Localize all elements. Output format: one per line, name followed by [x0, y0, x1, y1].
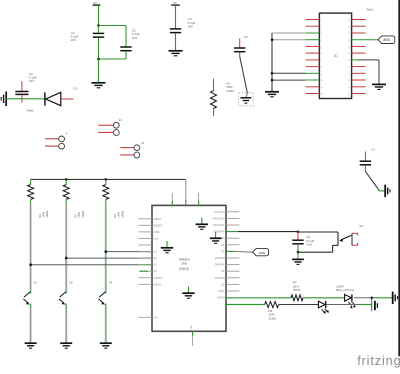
pin 17: [348, 67, 366, 69]
pin 7: [306, 60, 323, 62]
power 5V (C1/C2 net): [93, 1, 101, 5]
node junction: [29, 263, 32, 266]
wire: [30, 292, 32, 343]
svg-text:TX/D1: TX/D1: [218, 290, 225, 293]
net label ANS (Arduino): [253, 249, 269, 256]
pin 4: [306, 40, 323, 42]
pin D7 (right): [221, 250, 225, 253]
svg-text:fritzing: fritzing: [357, 354, 400, 368]
pin 1: [306, 20, 323, 22]
wire: [105, 292, 107, 343]
wire: [6, 98, 44, 100]
label Part2: [27, 108, 35, 112]
Arduino Uno (Rev3) body: [152, 205, 226, 331]
pin 14: [348, 87, 366, 89]
svg-text:16V: 16V: [188, 24, 194, 28]
svg-text:S3: S3: [109, 281, 113, 285]
wire: [303, 297, 344, 299]
svg-text:C4: C4: [244, 35, 248, 39]
pin 24: [348, 20, 366, 22]
ground (sideways right): [385, 185, 390, 197]
diode D1: [45, 87, 78, 106]
pin N/C (left): [139, 316, 158, 319]
fritzing watermark: [357, 354, 400, 368]
pin MISO/D12 (right): [213, 217, 239, 220]
pin A1 (left): [139, 257, 158, 260]
wire: [30, 205, 32, 292]
wire: [272, 79, 306, 81]
ground (below C1): [92, 83, 106, 88]
wire: [65, 205, 67, 292]
capacitor C2: [120, 29, 140, 59]
svg-text:16V: 16V: [29, 79, 35, 83]
svg-text:A5/SCL: A5/SCL: [154, 283, 163, 286]
pin A4/SDA (left): [139, 277, 163, 280]
pin GND (bottom): [191, 325, 193, 346]
svg-text:220Ω: 220Ω: [293, 288, 301, 292]
wire (R4 column to A0): [106, 251, 152, 253]
wire: [272, 32, 306, 34]
pin ioref (left): [139, 237, 159, 240]
svg-text:10kΩ: 10kΩ: [45, 210, 49, 218]
pin 6: [306, 53, 323, 55]
pin D4 (right): [221, 270, 239, 273]
wire (R3 column to A1): [66, 257, 152, 259]
pin 18: [348, 60, 379, 62]
sheet border (right edge): [398, 0, 400, 356]
pin 5V (top): [186, 204, 188, 207]
wire: [226, 297, 291, 299]
svg-text:16V: 16V: [306, 242, 312, 246]
node junction: [65, 178, 68, 181]
wire: [371, 298, 373, 312]
power 5V (C3 net): [171, 1, 180, 5]
wire: [175, 34, 177, 51]
ground (inside Arduino, right): [210, 232, 222, 244]
svg-text:5V: 5V: [93, 1, 97, 5]
node junction: [297, 231, 300, 234]
pin RESET2 (left): [139, 224, 164, 227]
svg-text:ANS: ANS: [259, 251, 265, 255]
node junction: [105, 178, 108, 181]
node junction: [371, 297, 373, 299]
pin A0 (left): [139, 251, 158, 254]
svg-text:J1: J1: [119, 118, 123, 122]
svg-text:GND: GND: [191, 325, 193, 330]
pin 9: [306, 73, 323, 75]
pin 13: [348, 94, 366, 96]
ground (inside Arduino, left): [161, 241, 173, 253]
svg-text:RESET: RESET: [154, 218, 163, 221]
wire (S4 loop): [298, 232, 338, 252]
capacitor C1: [71, 26, 105, 60]
op-amp U1 / IC Part1 body: [319, 13, 351, 98]
ground (left, sideways): [1, 92, 6, 107]
connector J4: [120, 141, 144, 158]
svg-text:S4: S4: [359, 224, 363, 228]
node junction: [105, 250, 108, 253]
capacitor C4: [292, 230, 314, 252]
wire: [297, 252, 299, 259]
svg-text:RX/D0: RX/D0: [217, 297, 225, 300]
svg-text:RESET2: RESET2: [154, 224, 164, 227]
svg-text:Part2: Part2: [27, 108, 35, 112]
pin 8: [306, 67, 323, 69]
pin 19: [348, 53, 366, 55]
wire: [99, 58, 127, 60]
wire: [226, 304, 265, 306]
ground (below C4): [292, 259, 304, 264]
ground (below C3): [169, 51, 183, 56]
svg-text:A4/SDA: A4/SDA: [154, 277, 163, 280]
wire: [326, 304, 371, 306]
wire: [98, 59, 100, 82]
pin D10/PWM (right): [213, 231, 224, 234]
wire: [226, 250, 253, 253]
resistor R6: [265, 302, 279, 321]
wire (top bus): [31, 178, 186, 180]
pin D6/PWM (right): [215, 257, 240, 260]
wire: [272, 72, 306, 74]
wire: [240, 56, 248, 93]
LED LED3: [318, 301, 329, 314]
ground (inside Arduino, top): [196, 217, 208, 229]
wire: [365, 171, 384, 191]
ground: [100, 343, 112, 348]
wire: [125, 26, 127, 47]
pin D5/PWM (right): [215, 264, 240, 267]
pin SCK/D13 (right): [214, 211, 239, 214]
svg-text:N/C: N/C: [154, 316, 158, 319]
pin 3V3 (top): [172, 193, 174, 208]
svg-text:16V: 16V: [71, 38, 77, 42]
svg-text:Part1: Part1: [367, 7, 375, 11]
pin 22: [348, 33, 366, 35]
svg-text:220Ω: 220Ω: [269, 316, 277, 320]
svg-text:AREF: AREF: [154, 231, 161, 234]
pin nc (left): [139, 244, 152, 246]
svg-text:IC: IC: [334, 54, 338, 58]
resistor R7: [291, 281, 303, 301]
node junction bottom: [97, 58, 100, 61]
net label ANS (IC): [378, 36, 395, 44]
switch S4: [339, 224, 363, 245]
capacitor C1 (right): [360, 147, 376, 171]
svg-text:S2: S2: [69, 281, 73, 285]
pin 2: [306, 26, 323, 28]
svg-text:SCK/D13: SCK/D13: [214, 211, 225, 214]
switch S2: [59, 281, 73, 305]
ground (far right, sideways): [393, 292, 398, 304]
wire (D10 row to C4/S4): [226, 231, 338, 233]
svg-text:Uno: Uno: [181, 261, 187, 265]
svg-text:(Rev3): (Rev3): [179, 267, 189, 271]
wire (R2 column to A2): [31, 264, 152, 266]
pin VIN (top): [198, 193, 200, 208]
wire: [98, 5, 100, 25]
wire: [354, 297, 392, 299]
pin 23: [348, 26, 366, 28]
node junction: [271, 38, 274, 41]
pin 11: [306, 87, 324, 89]
pin 16: [348, 73, 366, 75]
label Part1: [367, 7, 375, 11]
svg-text:220Ω: 220Ω: [226, 89, 234, 93]
svg-text:MOSI/D11: MOSI/D11: [213, 224, 225, 227]
wire: [378, 60, 380, 84]
pin 20: [348, 46, 366, 48]
wire: [272, 39, 306, 41]
node junction: [65, 257, 68, 260]
svg-text:S1: S1: [33, 281, 37, 285]
resistor R2: [28, 179, 50, 217]
svg-text:ioref: ioref: [154, 237, 159, 240]
ground (IC bus): [265, 92, 279, 97]
svg-text:D5/PWM: D5/PWM: [215, 264, 225, 267]
pin D3/PWM (right): [215, 277, 240, 280]
node junction: [297, 251, 300, 254]
svg-text:VIN: VIN: [198, 203, 200, 207]
pin AREF (left): [139, 231, 161, 234]
svg-text:Blue (470nm): Blue (470nm): [336, 288, 354, 292]
wire: [279, 304, 319, 306]
node junction: [271, 79, 274, 82]
svg-text:MISO/D12: MISO/D12: [213, 217, 225, 220]
svg-text:C1: C1: [371, 147, 375, 151]
svg-text:D1: D1: [73, 87, 77, 91]
wire (bus vertical to IC ground): [271, 33, 273, 91]
pin D9/PWM (right): [215, 237, 240, 240]
switch S1: [23, 281, 37, 305]
ground (right of IC): [372, 84, 386, 89]
pin RX/D0 (right): [217, 297, 225, 300]
wire: [105, 205, 107, 292]
capacitor C3: [170, 17, 196, 32]
wire: [65, 292, 67, 343]
pin RESET (left): [139, 218, 163, 221]
svg-text:16V: 16V: [132, 36, 138, 40]
pin TX/D1 (right): [218, 290, 240, 293]
ground (sideways, LED3 net): [375, 301, 378, 310]
node junction: [271, 72, 274, 75]
ground: [60, 343, 72, 348]
pin 5: [306, 46, 323, 48]
svg-text:10kΩ: 10kΩ: [81, 210, 85, 218]
capacitor C4 (top): [234, 35, 248, 57]
pin 3: [306, 33, 323, 35]
pin 10: [306, 80, 324, 82]
pin D8 (right): [221, 244, 239, 247]
wire (bus drop to Arduino): [185, 179, 187, 205]
switch S3: [99, 281, 113, 305]
svg-text:10kΩ: 10kΩ: [120, 210, 124, 218]
pin A2 (left): [139, 264, 158, 267]
resistor R3: [63, 179, 85, 217]
node junction top: [97, 24, 100, 27]
wire: [175, 5, 177, 28]
ground (inside Arduino, bottom): [182, 287, 194, 299]
pin 12: [306, 94, 324, 96]
svg-text:J4: J4: [141, 141, 145, 145]
pin 15: [348, 80, 366, 82]
pin MOSI/D11 (right): [213, 224, 239, 227]
resistor R1: [211, 79, 235, 116]
resistor R4: [103, 179, 125, 217]
connector J1: [98, 118, 122, 135]
svg-text:D6/PWM: D6/PWM: [215, 257, 225, 260]
svg-text:5V: 5V: [173, 1, 177, 5]
capacitor C9: [15, 72, 37, 102]
pin A5/SCL (left): [139, 283, 163, 286]
pin 21: [348, 40, 378, 42]
ground: [25, 343, 37, 348]
connector K: [45, 132, 68, 150]
pin D2 (right): [221, 283, 239, 286]
LED LED4: [336, 284, 355, 308]
wire: [99, 25, 127, 27]
svg-text:ANS: ANS: [383, 38, 391, 42]
pin A3 (left): [139, 270, 158, 273]
svg-text:K: K: [66, 132, 68, 136]
ground (selected, dashed box): [239, 93, 254, 106]
svg-text:D3/PWM: D3/PWM: [215, 277, 225, 280]
